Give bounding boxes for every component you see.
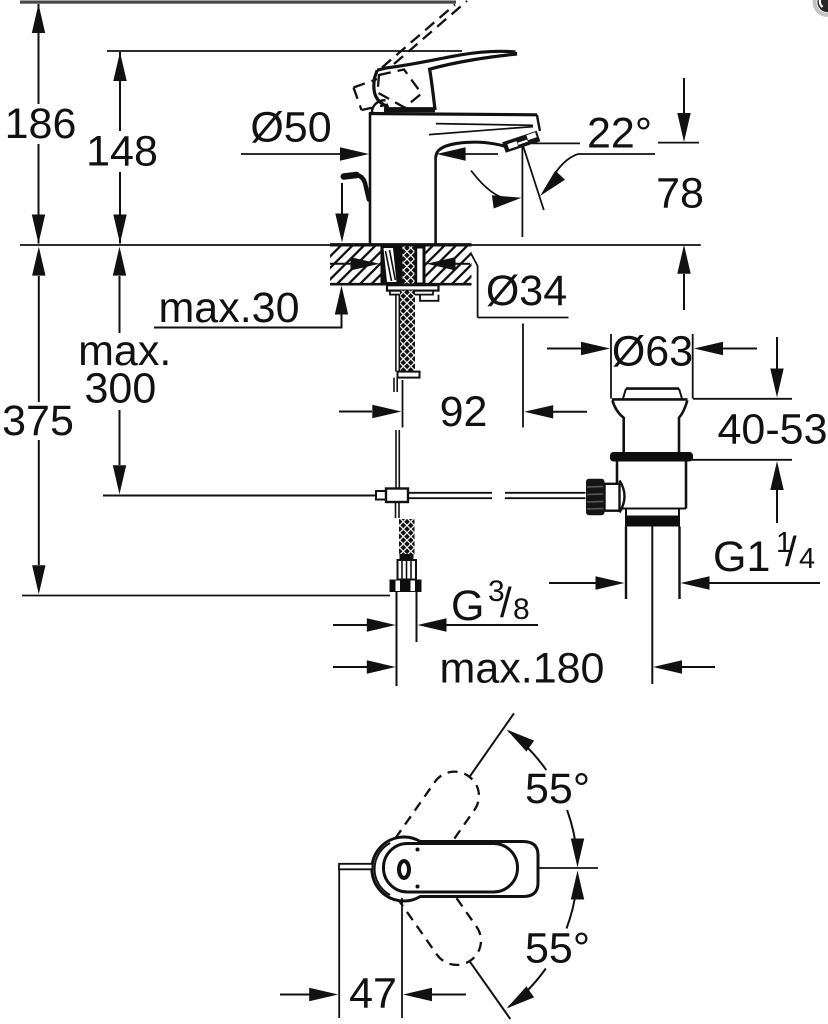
svg-text:Ø50: Ø50 — [250, 104, 331, 152]
top view: faucet base outline — [372, 837, 538, 901]
G1 1/4 label — [713, 527, 815, 581]
knob shaft — [605, 484, 620, 511]
dimension 375 — [2, 247, 74, 595]
svg-text:8: 8 — [513, 593, 530, 626]
G1 1/4 dimension arrows — [549, 576, 820, 589]
svg-text:300: 300 — [85, 365, 157, 413]
hose end fitting — [398, 372, 420, 378]
375 bottom reference line — [22, 595, 390, 597]
svg-text:40-53: 40-53 — [718, 406, 828, 454]
dashed handle (raised position, front view) — [354, 1, 468, 110]
drain valve cap — [623, 389, 682, 399]
drain flange — [612, 399, 688, 452]
Ø63 label — [547, 328, 757, 399]
top view: dashed handle swung down 55deg — [374, 837, 491, 975]
rod below junction — [396, 502, 400, 518]
drain knurled knob — [586, 479, 605, 515]
faucet lever handle (front view) — [374, 51, 516, 110]
svg-text:/: / — [500, 579, 512, 626]
svg-text:55°: 55° — [525, 925, 590, 973]
pop-up rod knob (hook behind body) — [344, 175, 369, 200]
horizontal pop-up linkage rod — [408, 493, 586, 498]
92 dimension extension line (right) — [522, 324, 524, 428]
dimension max.300 — [78, 247, 171, 495]
supply pipe tails — [396, 592, 398, 686]
148 reference line at y=51 — [107, 50, 462, 52]
svg-text:22°: 22° — [587, 110, 652, 158]
max.180 dimension arrows — [333, 660, 715, 673]
92 dimension extension line (hose axis) — [402, 380, 404, 428]
vertical reference line from spout outlet — [521, 147, 523, 238]
faucet body (front view) — [369, 113, 540, 244]
max.30 dimension arrows (counter thickness) — [335, 183, 349, 328]
pop-up rod (vertical) — [394, 295, 399, 488]
Ø50 right arrow (pointing left at spout root) — [448, 153, 498, 155]
ball joint dome on body top — [372, 100, 386, 112]
top view: centerline right — [538, 867, 598, 869]
drain valve body — [617, 462, 686, 517]
upper 55deg arc with arrows — [503, 724, 585, 867]
valve body boss arc — [620, 481, 625, 513]
svg-text:92: 92 — [440, 388, 488, 436]
svg-text:186: 186 — [5, 100, 77, 148]
lower 55deg arc with arrows — [503, 871, 585, 1014]
water stream direction line (22 deg) — [523, 147, 544, 211]
top view: dashed handle swung up 55deg — [372, 762, 489, 900]
braided hose lower section — [399, 519, 415, 554]
top view: left stub — [339, 864, 372, 870]
braided supply hose upper section — [400, 291, 415, 372]
svg-text:Ø34: Ø34 — [486, 267, 567, 315]
Ø34 label with leader box — [471, 254, 569, 318]
svg-text:max.180: max.180 — [440, 645, 605, 693]
svg-text:375: 375 — [2, 397, 74, 445]
dimension 78 — [532, 78, 704, 310]
countertop cross-section — [330, 245, 472, 284]
G 3/8 label — [451, 575, 530, 630]
mounting flange under counter — [387, 285, 439, 301]
Ø34 dimension arrows at hole — [351, 257, 380, 270]
max.30 label — [154, 284, 343, 332]
svg-text:G1: G1 — [713, 533, 770, 581]
svg-text:Ø63: Ø63 — [612, 328, 693, 376]
55deg radial line upper — [470, 713, 514, 776]
drain rubber seal ring — [610, 452, 693, 462]
svg-text:148: 148 — [86, 128, 158, 176]
swing arc arrow under spout — [471, 171, 512, 200]
countertop reference line left — [20, 244, 330, 246]
dimension 47 — [280, 869, 466, 1018]
aerator (spout outlet, tilted) — [502, 131, 540, 153]
mounting hole with faucet shank — [381, 246, 426, 283]
top view: handle — [384, 844, 518, 893]
drain tailpipe — [626, 527, 680, 685]
top reference bar (186 upper reference line) — [20, 1, 456, 4]
top view: inner arc on base circle — [375, 843, 391, 895]
dimension 92 — [339, 388, 587, 436]
svg-text:max.30: max.30 — [158, 284, 299, 332]
G3/8 nut — [390, 580, 422, 593]
drain body bottom dark ring — [625, 517, 680, 527]
dimension 148 — [86, 52, 158, 244]
dimension 40-53 — [692, 337, 827, 523]
ribbed connector — [398, 560, 417, 580]
svg-text:/: / — [785, 528, 797, 575]
svg-text:4: 4 — [799, 543, 815, 575]
top view: logo oval — [399, 861, 409, 878]
55deg radial line lower — [470, 962, 511, 1019]
pop-up linkage junction block — [376, 489, 408, 503]
dimension 186 — [5, 4, 77, 244]
G3/8 dimension arrows — [333, 618, 538, 631]
svg-text:G: G — [451, 582, 484, 630]
svg-text:47: 47 — [349, 970, 397, 1018]
Ø50 label — [241, 104, 369, 161]
expand icon top-right corner — [815, 0, 828, 15]
svg-text:78: 78 — [656, 170, 704, 218]
22 degree label — [535, 110, 655, 201]
countertop reference line right — [472, 244, 701, 246]
max.300 bottom reference line — [103, 495, 376, 497]
svg-text:55°: 55° — [525, 765, 590, 813]
hose ferrule — [400, 554, 414, 560]
top view: detail dots — [416, 848, 420, 852]
